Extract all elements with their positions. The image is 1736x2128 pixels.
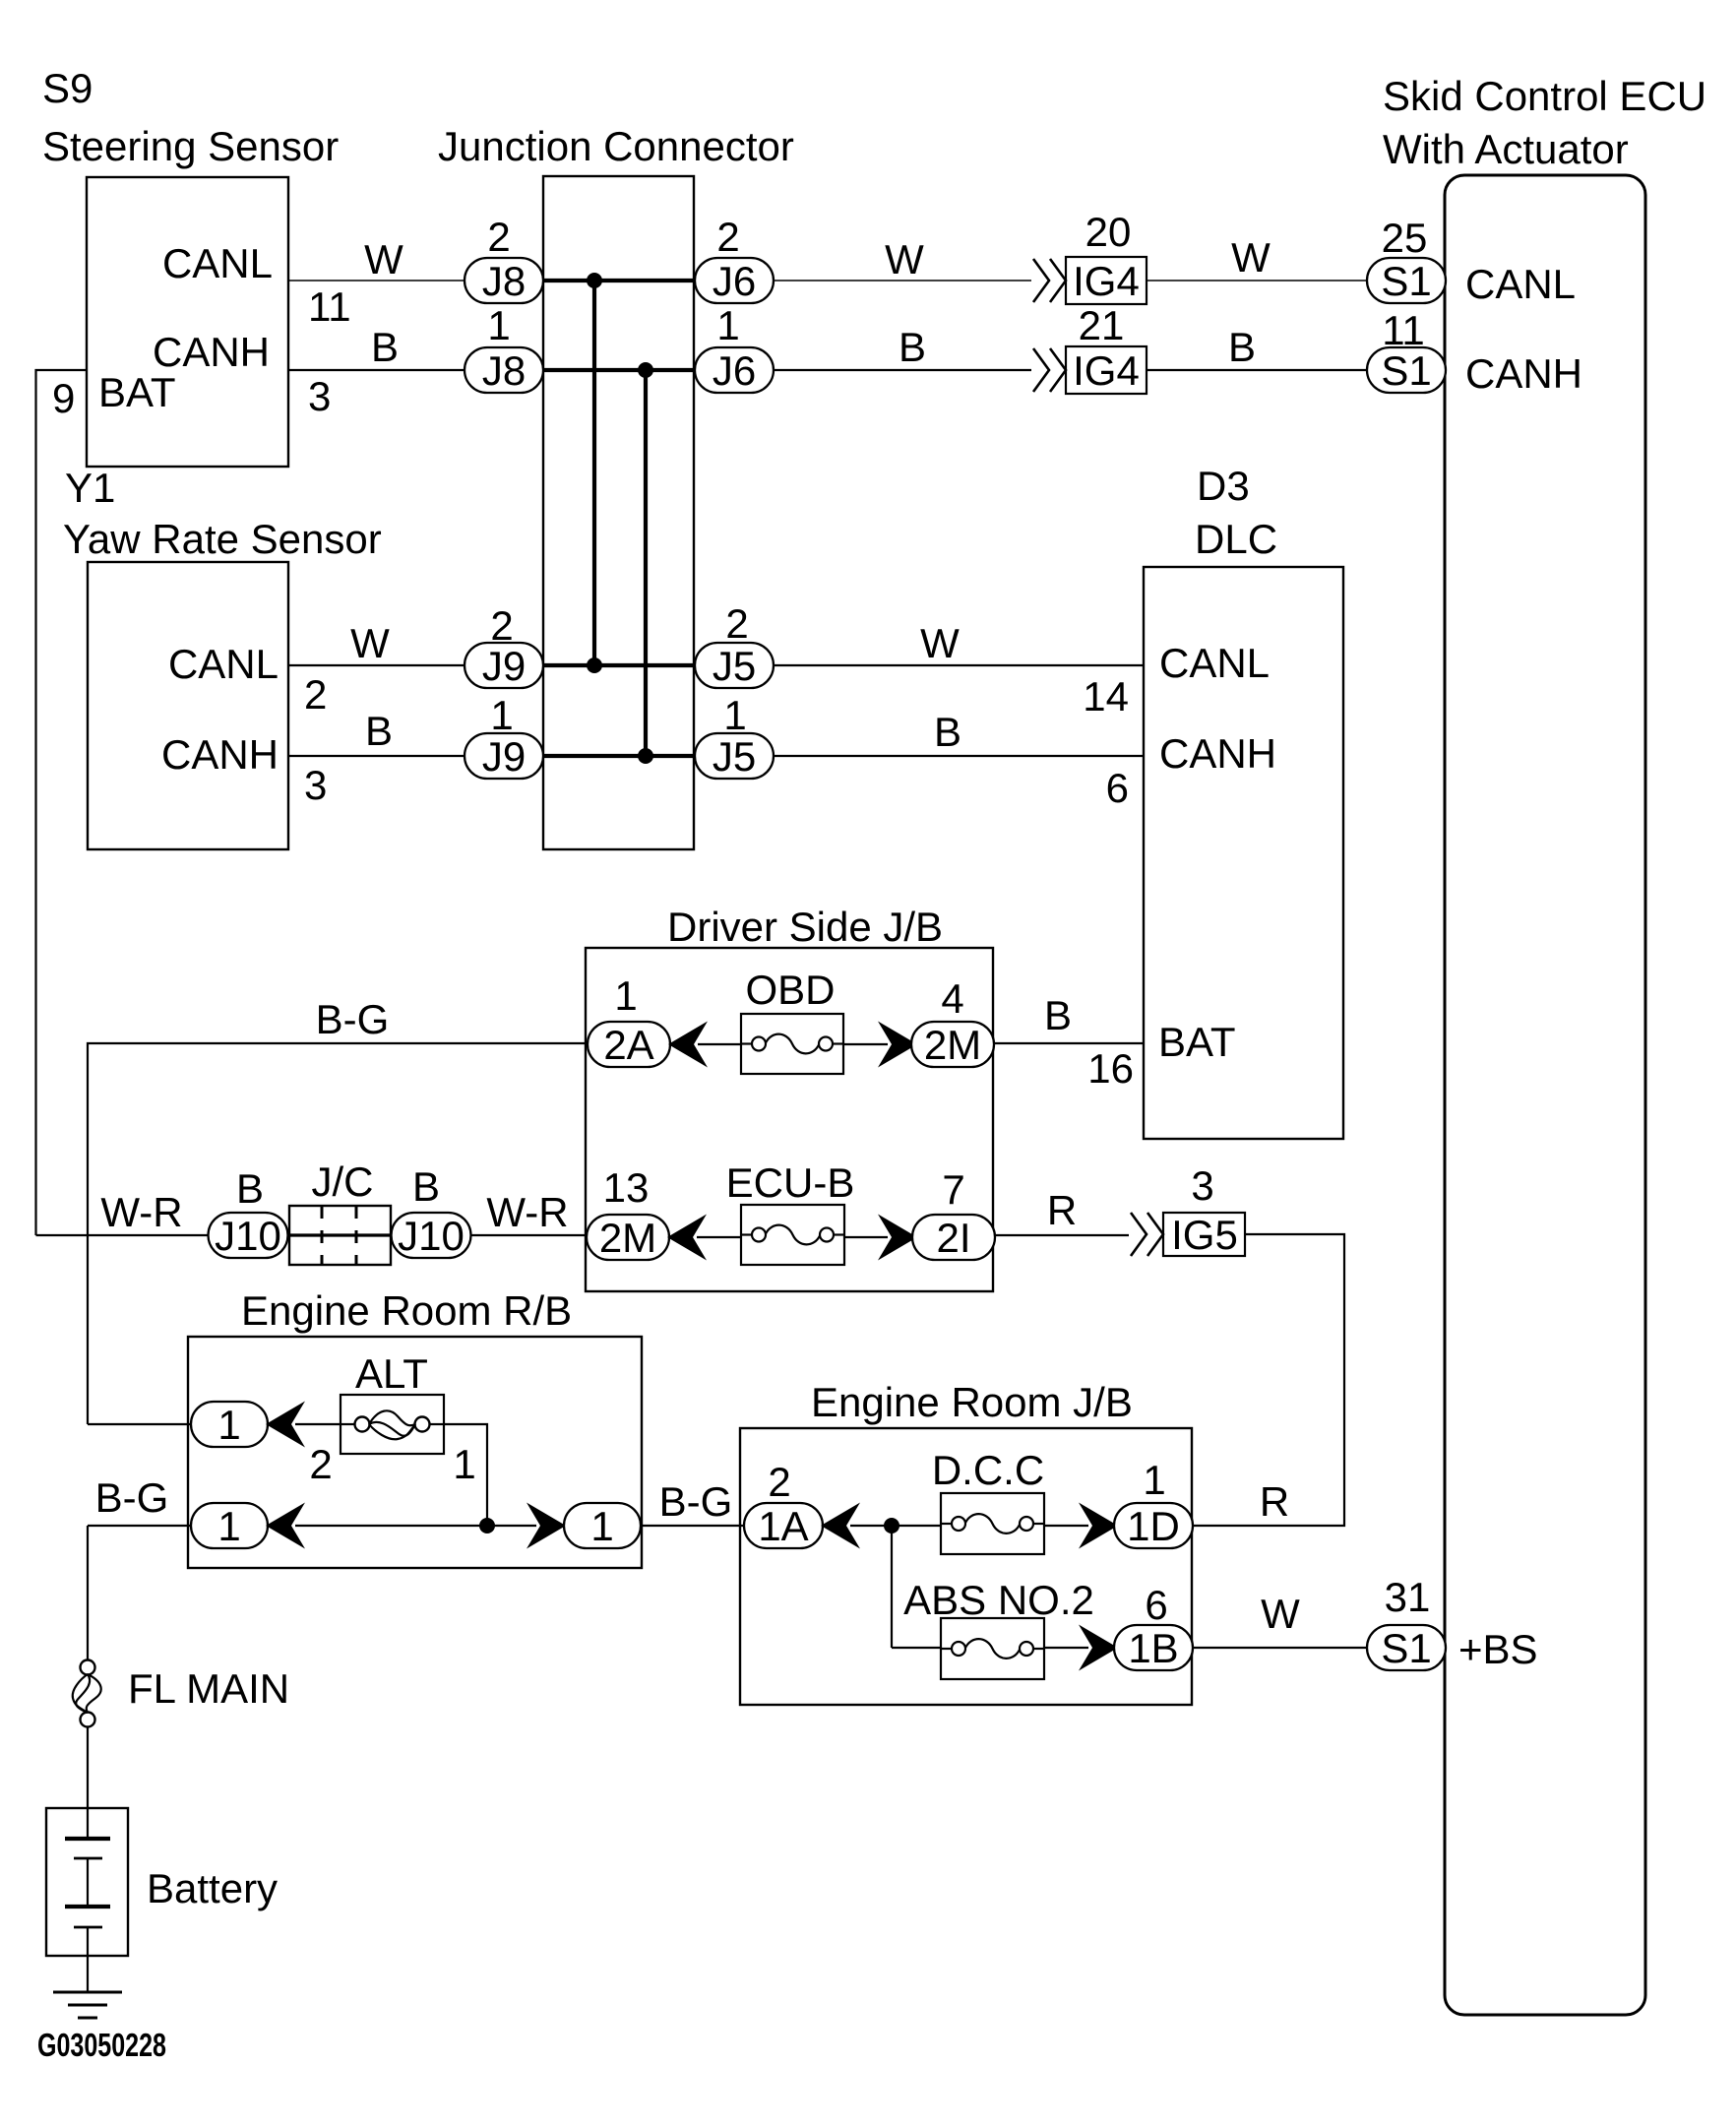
pin 9 steering BAT [52, 375, 75, 421]
svg-text:3: 3 [304, 762, 327, 808]
fuse ABS NO.2 [941, 1618, 1044, 1679]
label ALT [355, 1350, 428, 1397]
wire W label row A right [1231, 234, 1271, 281]
label ABS NO.2 [903, 1577, 1094, 1623]
svg-text:11: 11 [308, 283, 351, 330]
svg-text:IG4: IG4 [1073, 347, 1140, 394]
engine room J/B box [740, 1428, 1192, 1705]
svg-text:CANL: CANL [162, 240, 273, 286]
wire J6-2 to IG4-20 [774, 280, 1031, 282]
DLC label CANH [1159, 730, 1276, 777]
svg-text:B: B [1044, 992, 1072, 1038]
svg-text:S1: S1 [1381, 258, 1431, 304]
DLC label CANL [1159, 640, 1270, 686]
junction dot row A [587, 273, 602, 288]
wire CANL steering to J8 [288, 280, 465, 282]
pin number 25 [1382, 215, 1428, 261]
junction block J/C box [289, 1206, 391, 1265]
svg-text:R: R [1047, 1187, 1077, 1233]
svg-text:B: B [365, 708, 393, 754]
battery plate 2 short [74, 1857, 102, 1860]
svg-text:CANL: CANL [1465, 261, 1576, 307]
wire ECU-B fuse to 2I arrow [844, 1236, 888, 1238]
wire B label row B [371, 324, 399, 370]
pin number 4 [941, 975, 963, 1022]
pin 16 DLC BAT [1087, 1045, 1134, 1092]
svg-text:J8: J8 [482, 258, 526, 304]
wire J10 to J/C [288, 1234, 289, 1236]
wire B label J10 right [412, 1163, 440, 1210]
pin number 1 above J8 [487, 302, 510, 348]
wire B label row D [934, 709, 961, 755]
wire yaw CANL to J9-2 [288, 664, 465, 666]
svg-text:6: 6 [1145, 1582, 1167, 1628]
svg-text:CANL: CANL [168, 641, 279, 687]
svg-text:W-R: W-R [100, 1189, 182, 1235]
svg-text:1: 1 [614, 972, 637, 1019]
pin number 20 [1085, 209, 1132, 255]
connector S1 pin 25 [1367, 258, 1446, 304]
connector 2I pin 7 [912, 1215, 995, 1261]
wire B-G label row H left [95, 1474, 169, 1521]
wire R label row F [1047, 1187, 1077, 1233]
wire row H across R/B [295, 1525, 536, 1527]
label J/C [312, 1158, 374, 1205]
label BAT steering [98, 369, 176, 415]
wire J10 to 2M row F [470, 1234, 587, 1236]
junction dot row D [638, 748, 653, 764]
svg-text:J5: J5 [713, 643, 756, 689]
wire B-G label row E [316, 996, 390, 1042]
svg-text:CANH: CANH [1159, 730, 1276, 777]
svg-text:3: 3 [1191, 1162, 1213, 1209]
svg-text:3: 3 [308, 373, 331, 419]
wire B label row B mid [899, 324, 926, 370]
wire FL to battery [87, 1726, 89, 1839]
pin number 3 IG5 [1191, 1162, 1213, 1209]
label Skid Control ECU [1383, 73, 1706, 119]
arrow right into 1D [1079, 1503, 1118, 1549]
svg-text:2: 2 [309, 1441, 332, 1487]
wire W-R label right [486, 1189, 568, 1235]
label Engine Room R/B [241, 1287, 572, 1334]
svg-text:7: 7 [942, 1166, 964, 1213]
svg-text:Driver Side J/B: Driver Side J/B [667, 904, 943, 950]
connector 2A [588, 1022, 670, 1068]
arrow left at 2A [668, 1022, 708, 1068]
svg-text:2: 2 [487, 214, 510, 260]
wire 1B to S1 +BS [1192, 1647, 1367, 1649]
label G03050228 [37, 2027, 166, 2063]
connector 1 row H left [191, 1503, 268, 1549]
wire row G into R/B [88, 1423, 191, 1425]
label Driver Side J/B [667, 904, 943, 950]
battery plate 3 long [65, 1905, 110, 1909]
svg-text:B: B [236, 1165, 264, 1212]
label FL MAIN [128, 1665, 289, 1712]
svg-text:16: 16 [1087, 1045, 1134, 1092]
ECU label CANH [1465, 350, 1582, 397]
wire W label row A mid [885, 236, 924, 282]
wire IG4-20 to S1-25 [1147, 280, 1367, 282]
svg-text:2M: 2M [924, 1022, 981, 1068]
junction connector box [543, 176, 694, 849]
svg-text:1: 1 [487, 302, 510, 348]
svg-text:G03050228: G03050228 [37, 2027, 166, 2063]
label Steering Sensor [42, 123, 339, 169]
pin number 1 ALT [453, 1441, 475, 1487]
fuse ECU-B [741, 1205, 844, 1265]
svg-text:ECU-B: ECU-B [726, 1159, 855, 1206]
driver side J/B box [586, 948, 993, 1291]
svg-text:1: 1 [1143, 1457, 1165, 1503]
vertical 906 to ABS row [891, 1526, 893, 1648]
connector J5 pin 1 [695, 733, 774, 780]
wire OBD fuse to 2M arrow [843, 1043, 888, 1045]
svg-text:CANH: CANH [153, 329, 270, 375]
battery plate 1 long [65, 1837, 110, 1841]
connector J9 pin 1 [465, 733, 543, 780]
svg-text:ABS NO.2: ABS NO.2 [903, 1577, 1094, 1623]
connector J5 pin 2 [695, 643, 774, 689]
junction dot row C [587, 657, 602, 673]
svg-text:Skid Control ECU: Skid Control ECU [1383, 73, 1706, 119]
wire J8-1 to J6-1 bus [543, 368, 695, 372]
svg-text:J10: J10 [398, 1213, 465, 1259]
pin number 1 above J9 [490, 692, 513, 738]
svg-text:W: W [885, 236, 924, 282]
wire CANH steering to J8 [288, 369, 465, 371]
wire ALT to corner down [444, 1424, 487, 1526]
svg-text:W: W [920, 620, 960, 666]
battery plate 4 short [74, 1926, 102, 1929]
svg-text:Y1: Y1 [65, 465, 115, 511]
svg-text:1B: 1B [1128, 1625, 1178, 1671]
wire J8-2 to J6-2 bus [543, 279, 695, 282]
wire B label row B right [1228, 324, 1256, 370]
wire J5-1 to DLC CANH [774, 755, 1144, 757]
svg-text:Steering Sensor: Steering Sensor [42, 123, 339, 169]
wire 1A arrow to DCC [850, 1525, 941, 1527]
pin 11 steering CANL [308, 283, 351, 330]
junction bus 2 vertical [644, 370, 648, 756]
tag IG4 row B [1066, 346, 1147, 394]
pin number 1 above J5 [723, 692, 746, 738]
arrow left at 2M-13 [667, 1215, 707, 1261]
wire DCC to 1D arrow [1044, 1525, 1088, 1527]
arrow right into 2I [878, 1215, 917, 1261]
svg-text:1: 1 [590, 1503, 613, 1549]
svg-text:BAT: BAT [98, 369, 176, 415]
wire W label row I [1261, 1591, 1300, 1637]
connector J8 pin 1 [465, 347, 543, 394]
wire battery to ground [87, 1927, 89, 1992]
chevron into IG4 row B [1033, 348, 1066, 392]
wire R/B to 1A B-G [641, 1525, 744, 1527]
svg-text:1: 1 [217, 1402, 240, 1448]
pin number 13 [603, 1164, 650, 1211]
svg-text:ALT: ALT [355, 1350, 428, 1397]
skid control ECU box [1445, 175, 1645, 2015]
svg-text:1: 1 [217, 1503, 240, 1549]
svg-text:B-G: B-G [316, 996, 390, 1042]
connector 2M pin 13 [587, 1215, 669, 1261]
DLC label BAT [1158, 1019, 1236, 1065]
svg-text:1: 1 [453, 1441, 475, 1487]
tag IG4 row A [1066, 257, 1147, 304]
svg-text:CANH: CANH [161, 731, 279, 778]
fuse ALT fusible link [341, 1395, 444, 1454]
svg-text:25: 25 [1382, 215, 1428, 261]
label D3 [1197, 463, 1250, 509]
svg-text:J8: J8 [482, 347, 526, 394]
label Engine Room J/B [811, 1379, 1133, 1425]
wire row H B-G left [88, 1525, 191, 1527]
chevron into IG5 [1131, 1213, 1163, 1256]
svg-text:Junction Connector: Junction Connector [438, 123, 794, 169]
pin number 21 [1079, 302, 1125, 348]
svg-text:1: 1 [716, 302, 739, 348]
junction dot R/B row H [479, 1518, 495, 1533]
battery box [46, 1808, 128, 1956]
svg-text:2A: 2A [603, 1022, 653, 1068]
svg-text:2I: 2I [936, 1215, 970, 1261]
pin number 11 S1 [1382, 307, 1425, 353]
svg-text:Engine Room R/B: Engine Room R/B [241, 1287, 572, 1334]
arrow left row H [266, 1503, 305, 1549]
pin number 2 above J9 [490, 602, 513, 649]
svg-text:D3: D3 [1197, 463, 1250, 509]
connector 1B [1114, 1625, 1193, 1671]
label With Actuator [1383, 126, 1629, 172]
battery cell link [87, 1858, 89, 1907]
connector 1A [744, 1503, 823, 1549]
steering label CANL [162, 240, 273, 286]
arrow right into 2M [878, 1022, 917, 1068]
svg-text:IG4: IG4 [1073, 258, 1140, 304]
svg-text:B-G: B-G [95, 1474, 169, 1521]
svg-text:J9: J9 [482, 643, 526, 689]
wire 2M to DLC BAT [990, 1042, 1144, 1044]
connector J6 pin 1 [695, 347, 774, 394]
pin number 7 [942, 1166, 964, 1213]
svg-text:1: 1 [723, 692, 746, 738]
fuse D.C.C [941, 1493, 1044, 1554]
ECU label CANL [1465, 261, 1576, 307]
wire IG4-21 to S1-11 [1147, 369, 1367, 371]
svg-text:4: 4 [941, 975, 963, 1022]
connector J10 right [392, 1213, 471, 1259]
yaw label CANL [168, 641, 279, 687]
svg-text:J9: J9 [482, 733, 526, 780]
svg-text:Battery: Battery [147, 1865, 278, 1911]
connector 1 row H right [564, 1503, 641, 1549]
wire 2M arrow to ECU-B fuse [697, 1236, 741, 1238]
arrow left row G [266, 1402, 305, 1448]
pin 14 DLC CANL [1083, 673, 1129, 720]
pin number 2 above J6 [716, 214, 739, 260]
svg-text:B: B [1228, 324, 1256, 370]
svg-text:31: 31 [1385, 1574, 1431, 1620]
wire J5-2 to DLC CANL [774, 664, 1144, 666]
pin number 2 above J5 [725, 600, 748, 647]
wire B label row E right [1044, 992, 1072, 1038]
svg-text:20: 20 [1085, 209, 1132, 255]
fuse OBD [741, 1014, 843, 1074]
svg-text:21: 21 [1079, 302, 1125, 348]
svg-text:2M: 2M [599, 1215, 656, 1261]
wire 2I to IG5 [992, 1234, 1129, 1236]
svg-text:CANH: CANH [1465, 350, 1582, 397]
pin number 1 above 2A [614, 972, 637, 1019]
svg-text:1D: 1D [1127, 1503, 1180, 1549]
svg-text:S1: S1 [1381, 1625, 1431, 1671]
svg-text:1A: 1A [758, 1503, 808, 1549]
svg-text:B: B [371, 324, 399, 370]
pin number 1 above 1D [1143, 1457, 1165, 1503]
svg-text:D.C.C: D.C.C [932, 1447, 1044, 1493]
pin number 1 above J6 [716, 302, 739, 348]
pin 3 steering CANH [308, 373, 331, 419]
svg-text:13: 13 [603, 1164, 650, 1211]
wire IG5 to 1D [1192, 1234, 1344, 1526]
junction dot row B [638, 362, 653, 378]
svg-text:IG5: IG5 [1171, 1212, 1238, 1258]
pin number 2 above J8 [487, 214, 510, 260]
yaw label CANH [161, 731, 279, 778]
pin number 31 [1385, 1574, 1431, 1620]
svg-text:2: 2 [716, 214, 739, 260]
wire R label row H right [1260, 1478, 1289, 1525]
connector S1 pin 31 [1367, 1625, 1446, 1671]
wire W-R label left [100, 1189, 182, 1235]
svg-text:B: B [934, 709, 961, 755]
wire BAT steering left [36, 370, 88, 1235]
wire 2A arrow to OBD fuse [698, 1043, 741, 1045]
fusible link FL MAIN [73, 1660, 101, 1727]
svg-text:W: W [1231, 234, 1271, 281]
svg-text:R: R [1260, 1478, 1289, 1525]
wire J9-1 to J5-1 bus [543, 754, 695, 758]
label DLC [1195, 516, 1277, 562]
svg-text:14: 14 [1083, 673, 1129, 720]
ground symbol [53, 1992, 122, 2018]
svg-text:2: 2 [490, 602, 513, 649]
pin 3 yaw CANH [304, 762, 327, 808]
svg-text:1: 1 [490, 692, 513, 738]
wire B-G row E left [88, 1043, 589, 1424]
label ECU-B [726, 1159, 855, 1206]
wire arrow to ALT [295, 1423, 341, 1425]
connector S1 pin 11 [1367, 347, 1446, 394]
connector 1D [1114, 1503, 1193, 1549]
svg-text:J6: J6 [713, 258, 756, 304]
steering sensor box S9 [87, 177, 288, 467]
chevron into IG4 row A [1033, 259, 1066, 302]
wire J6-1 to IG4-21 [774, 369, 1031, 371]
tag IG5 [1163, 1212, 1245, 1258]
connector 1 row G [191, 1402, 268, 1448]
svg-text:J6: J6 [713, 347, 756, 394]
wire ABS row [892, 1647, 941, 1649]
svg-text:B: B [899, 324, 926, 370]
svg-text:W: W [1261, 1591, 1300, 1637]
svg-text:W-R: W-R [486, 1189, 568, 1235]
svg-text:S1: S1 [1381, 347, 1431, 394]
svg-text:OBD: OBD [745, 967, 835, 1013]
steering label CANH [153, 329, 270, 375]
svg-text:B-G: B-G [659, 1478, 733, 1525]
label Yaw Rate Sensor [63, 516, 382, 562]
engine room R/B box [188, 1337, 642, 1568]
connector J9 pin 2 [465, 643, 543, 689]
svg-text:CANL: CANL [1159, 640, 1270, 686]
wire J/C to J10 right [391, 1234, 392, 1236]
arrow left at 1A [821, 1503, 860, 1549]
connector 2M pin 4 [911, 1022, 994, 1068]
label D.C.C [932, 1447, 1044, 1493]
connector J8 pin 2 [465, 258, 543, 304]
svg-text:6: 6 [1106, 765, 1129, 811]
wire battery vertical [87, 1526, 89, 1660]
wire yaw CANH to J9-1 [288, 755, 465, 757]
label Battery [147, 1865, 278, 1911]
label Junction Connector [438, 123, 794, 169]
junction dot engine J/B [884, 1518, 899, 1533]
svg-text:11: 11 [1382, 307, 1425, 353]
svg-text:9: 9 [52, 375, 75, 421]
wire W label row C left [350, 620, 390, 666]
svg-text:BAT: BAT [1158, 1019, 1236, 1065]
yaw rate sensor box Y1 [88, 562, 288, 849]
svg-text:2: 2 [304, 671, 327, 718]
wire ABS to 1B arrow [1044, 1647, 1088, 1649]
svg-text:FL MAIN: FL MAIN [128, 1665, 289, 1712]
label Y1 [65, 465, 115, 511]
wire B label J10 left [236, 1165, 264, 1212]
pin number 2 above 1A [768, 1459, 790, 1505]
wire W label row C [920, 620, 960, 666]
wire W-R row F [36, 1234, 210, 1236]
label OBD [745, 967, 835, 1013]
svg-text:+BS: +BS [1458, 1626, 1538, 1672]
junction bus 1 vertical [592, 281, 596, 665]
pin 2 yaw CANL [304, 671, 327, 718]
wire B label row D left [365, 708, 393, 754]
svg-text:Engine Room J/B: Engine Room J/B [811, 1379, 1133, 1425]
svg-text:W: W [350, 620, 390, 666]
svg-text:J/C: J/C [312, 1158, 374, 1205]
DLC box D3 [1144, 567, 1343, 1139]
arrow right row H [527, 1503, 566, 1549]
arrow right into 1B [1079, 1625, 1118, 1671]
ECU label +BS [1458, 1626, 1538, 1672]
pin number 6 above 1B [1145, 1582, 1167, 1628]
svg-text:DLC: DLC [1195, 516, 1277, 562]
connector J6 pin 2 [695, 258, 774, 304]
svg-text:W: W [364, 236, 403, 282]
svg-text:S9: S9 [42, 65, 93, 111]
label S9 [42, 65, 93, 111]
svg-text:J5: J5 [713, 733, 756, 780]
svg-text:Yaw Rate Sensor: Yaw Rate Sensor [63, 516, 382, 562]
svg-text:2: 2 [725, 600, 748, 647]
wire J9-2 to J5-2 bus [543, 663, 695, 667]
svg-text:B: B [412, 1163, 440, 1210]
connector J10 left [209, 1213, 288, 1259]
pin 6 DLC CANH [1106, 765, 1129, 811]
svg-text:2: 2 [768, 1459, 790, 1505]
